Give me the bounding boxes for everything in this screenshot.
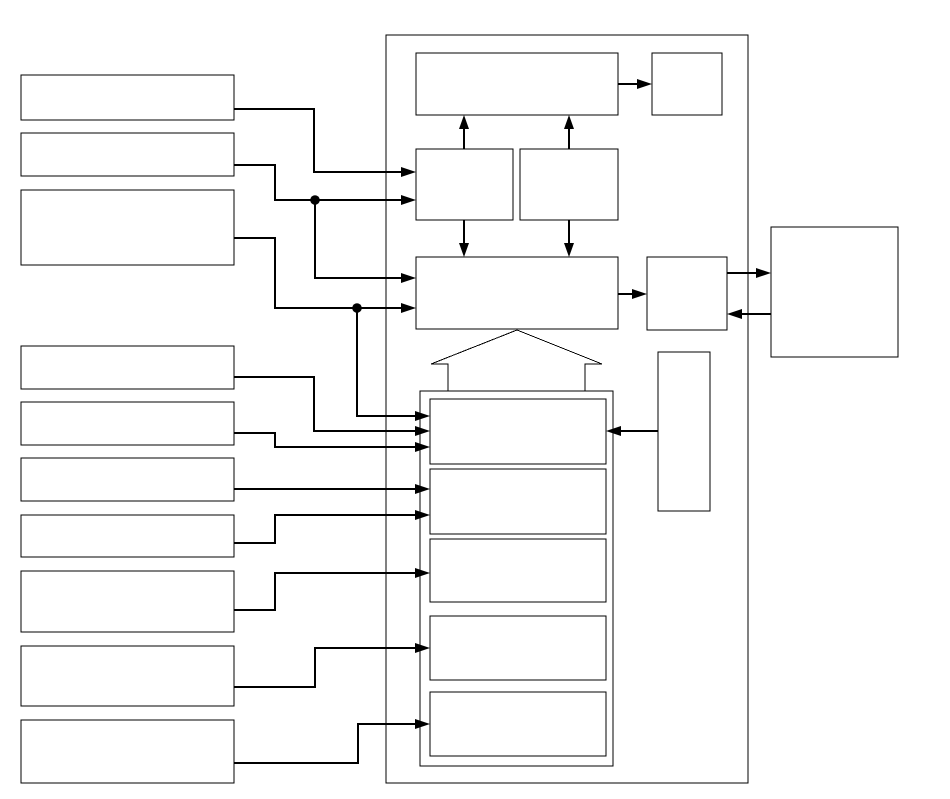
arrowhead into S1 from BB xyxy=(632,289,647,299)
arrowhead into M1 (from W2) xyxy=(401,195,416,205)
stacked box S_1 xyxy=(430,399,606,464)
box B5 (input block 5) xyxy=(21,402,234,445)
wire W2 (B2 to M1) xyxy=(234,165,410,200)
arrowhead down into BB from M1 xyxy=(459,243,469,257)
arrowhead into BB (from W3) xyxy=(401,303,416,313)
stacked box S_5 xyxy=(430,692,606,756)
wire W3 (B3 to BB) xyxy=(234,238,410,308)
arrowhead into S_1 (from W4) xyxy=(415,426,430,436)
box B3 (input block 3) xyxy=(21,190,234,265)
wire W9 (B9 to S_4) xyxy=(234,648,424,687)
arrowhead into S_2 (from W6) xyxy=(415,484,430,494)
box T1 (top inner block) xyxy=(416,53,618,115)
box B6 (input block 6) xyxy=(21,458,234,501)
wire W5 (B5 to S_1) xyxy=(234,433,424,447)
box S1 (interface small block) xyxy=(647,257,727,330)
wire M1 down to BB xyxy=(463,220,465,251)
box B9 (input block 9) xyxy=(21,646,234,706)
wire BB to S1 xyxy=(618,293,641,295)
stack container xyxy=(420,391,613,766)
junction dot J1 xyxy=(310,195,320,205)
arrowhead into S_3 (from W8) xyxy=(415,568,430,578)
wire M2 up to T1 xyxy=(568,121,570,149)
wire M1 up to T1 xyxy=(463,121,465,149)
arrowhead into S_1 (from W3b) xyxy=(415,411,430,421)
arrowhead up into T1 from M1 xyxy=(459,115,469,129)
box B2 (input block 2) xyxy=(21,133,234,176)
arrowhead into BB (from W2b) xyxy=(401,273,416,283)
box B1 (top-left input block 1) xyxy=(21,75,234,120)
box B7 (input block 7) xyxy=(21,515,234,557)
arrowhead into T2 xyxy=(637,79,652,89)
arrowhead into S_5 (from W10) xyxy=(415,719,430,729)
box M2 (middle-right block) xyxy=(520,149,618,220)
wire W7 (B7 to S_2) xyxy=(234,515,424,543)
wire W10 (B10 to S_5) xyxy=(234,724,424,763)
arrowhead into S_1 from TB xyxy=(606,426,621,436)
box TB (tall narrow block) xyxy=(658,352,710,511)
arrowhead into S_4 (from W9) xyxy=(415,643,430,653)
wire W3b (junction branch to S_1) xyxy=(357,308,424,416)
arrowhead into S_2 (from W7) xyxy=(415,510,430,520)
arrowhead into S1 from E1 xyxy=(727,309,742,319)
box T2 (top-right small block) xyxy=(652,53,722,115)
wire T1 to T2 xyxy=(618,83,646,85)
container: main system boundary xyxy=(386,35,748,783)
arrowhead down into BB from M2 xyxy=(564,243,574,257)
wire W4 (B4 to S_1) xyxy=(234,377,424,431)
box B8 (input block 8) xyxy=(21,571,234,632)
stacked box S_4 xyxy=(430,616,606,680)
box E1 (external right block) xyxy=(771,227,898,357)
arrowhead up into T1 from M2 xyxy=(564,115,574,129)
block arrow (stack to central block) xyxy=(431,330,602,391)
box B10 (input block 10) xyxy=(21,720,234,783)
box M1 (middle-left block) xyxy=(416,149,513,220)
stacked box S_2 xyxy=(430,469,606,534)
arrowhead into S_1 (from W5) xyxy=(415,442,430,452)
arrowhead into E1 xyxy=(756,268,771,278)
wire W8 (B8 to S_3) xyxy=(234,573,424,610)
wire S1 to E1 xyxy=(727,272,765,274)
wire W6 (B6 to S_2) xyxy=(234,488,424,490)
junction dot J2 xyxy=(352,303,362,313)
wire M2 down to BB xyxy=(568,220,570,251)
wire W2b (junction branch to BB) xyxy=(315,200,410,278)
wire E1 to S1 xyxy=(733,313,771,315)
wire TB to S_1 xyxy=(612,430,658,432)
box BB (central wide block) xyxy=(416,257,618,329)
box B4 (input block 4) xyxy=(21,346,234,389)
stacked box S_3 xyxy=(430,539,606,602)
arrowhead into M1 (from W1) xyxy=(401,167,416,177)
wire W1 (B1 to M1) xyxy=(234,109,410,172)
